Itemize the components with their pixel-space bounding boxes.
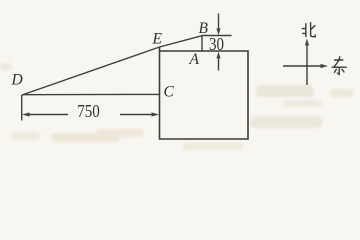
svg-text:E: E bbox=[152, 31, 163, 48]
dimension 30 lower arrow (pointing up) bbox=[218, 57, 220, 71]
dimension 750 left arrowhead bbox=[22, 112, 30, 116]
compass north arrow bbox=[306, 44, 308, 85]
dimension 750 right arrowhead bbox=[152, 112, 160, 116]
label 东 (east) drawn as strokes bbox=[332, 57, 346, 75]
svg-text:A: A bbox=[189, 51, 200, 68]
sight line D-E-B bbox=[22, 36, 202, 95]
building rectangle (left edge rises to E) bbox=[160, 47, 249, 139]
ground line D-C bbox=[22, 93, 160, 95]
extension line below D bbox=[21, 95, 23, 121]
svg-text:D: D bbox=[11, 72, 23, 89]
background paper bbox=[0, 0, 360, 154]
label 北 (north) drawn as strokes bbox=[302, 23, 315, 37]
wall segment B-A bbox=[201, 36, 203, 51]
dimension 30 upper arrow (pointing down) bbox=[218, 14, 220, 31]
svg-text:B: B bbox=[199, 20, 209, 37]
dimension 750 right segment bbox=[120, 114, 154, 116]
dimension 750 left segment bbox=[27, 114, 68, 116]
svg-text:750: 750 bbox=[77, 102, 99, 121]
ledge line at B level bbox=[202, 35, 232, 37]
svg-text:30: 30 bbox=[209, 34, 224, 55]
compass east arrow bbox=[283, 65, 323, 67]
svg-text:C: C bbox=[164, 84, 175, 101]
